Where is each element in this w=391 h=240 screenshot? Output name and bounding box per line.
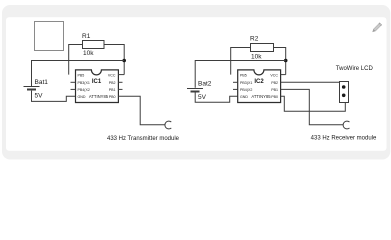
- svg-text:IC1: IC1: [92, 79, 102, 85]
- svg-text:ATTINY85: ATTINY85: [89, 94, 109, 99]
- svg-text:PB0: PB0: [271, 95, 278, 99]
- wire battery2 minus to GND pin: [195, 92, 238, 102]
- svg-text:10k: 10k: [251, 54, 262, 61]
- svg-text:PB1: PB1: [271, 88, 278, 92]
- svg-text:PB0: PB0: [109, 95, 116, 99]
- pin stub PB4: [71, 88, 76, 90]
- svg-text:TwoWire LCD: TwoWire LCD: [336, 66, 374, 72]
- svg-text:GND: GND: [78, 95, 86, 99]
- unconnected square box (annotation): [35, 22, 64, 51]
- pin stub PB4 (IC2): [233, 88, 238, 90]
- pin stub PB3: [71, 81, 76, 83]
- svg-text:10k: 10k: [83, 50, 94, 57]
- svg-text:R1: R1: [82, 33, 91, 40]
- svg-text:PB2: PB2: [271, 81, 278, 85]
- battery Bat1: [24, 79, 49, 100]
- resistor R1: [82, 33, 104, 57]
- svg-text:R2: R2: [250, 36, 259, 43]
- MCU IC2 ATTINY85: [238, 70, 281, 103]
- svg-text:VCC: VCC: [108, 73, 116, 77]
- pin stub PB3 (IC2): [233, 81, 238, 83]
- wire battery1 plus bus: [32, 61, 125, 87]
- battery Bat2: [187, 81, 212, 102]
- svg-text:5V: 5V: [35, 93, 44, 100]
- wire PB2 to LCD connector: [281, 81, 340, 83]
- svg-text:PB4(X2: PB4(X2: [78, 88, 90, 92]
- svg-text:PB3(X1: PB3(X1: [240, 81, 252, 85]
- svg-text:5V: 5V: [198, 94, 207, 101]
- svg-text:PB5: PB5: [78, 73, 85, 77]
- wire PB0 to transmitter module: [118, 96, 165, 125]
- svg-text:IC2: IC2: [254, 79, 264, 85]
- wire PB0 to LCD connector bottom: [281, 96, 346, 111]
- wire R1 right to VCC vertical: [104, 45, 124, 75]
- svg-text:Bat1: Bat1: [35, 79, 49, 86]
- svg-text:ATTINY85: ATTINY85: [251, 94, 271, 99]
- svg-text:PB5: PB5: [240, 73, 247, 77]
- svg-text:VCC: VCC: [270, 73, 278, 77]
- svg-text:PB3(X1: PB3(X1: [78, 81, 90, 85]
- svg-text:GND: GND: [240, 95, 248, 99]
- resistor R2: [250, 36, 274, 61]
- wire R1 left to PB5 vertical: [69, 45, 83, 75]
- pencil edit icon: [371, 22, 382, 33]
- receiver module connector arc: [343, 121, 349, 129]
- pin stub PB2: [118, 81, 123, 83]
- op-amp / MCU IC1 ATTINY85: [76, 70, 119, 103]
- svg-text:Bat2: Bat2: [198, 81, 212, 88]
- wire battery2 plus bus: [195, 61, 286, 88]
- wire battery1 minus to GND pin: [32, 91, 76, 102]
- node junction dot (VCC net left): [122, 59, 126, 63]
- wire R2 left to PB5 vertical: [231, 48, 251, 75]
- pin stub PB1: [118, 88, 123, 90]
- svg-text:PB2: PB2: [109, 81, 116, 85]
- node junction dot (VCC net right): [284, 59, 288, 63]
- page frame border: [2, 5, 390, 160]
- svg-text:PB1: PB1: [109, 88, 116, 92]
- wire R2 right to VCC vertical: [274, 48, 286, 75]
- svg-text:PB4(X2: PB4(X2: [240, 88, 252, 92]
- transmitter module connector arc: [165, 121, 171, 129]
- svg-text:433 Hz Transmitter module: 433 Hz Transmitter module: [107, 136, 180, 142]
- TwoWire LCD connector: [336, 66, 374, 103]
- svg-text:433 Hz Receiver module: 433 Hz Receiver module: [311, 136, 377, 142]
- pin stub VCC (IC2): [281, 74, 286, 76]
- wire PB1 to receiver module: [281, 89, 344, 124]
- pin stub VCC: [118, 74, 124, 76]
